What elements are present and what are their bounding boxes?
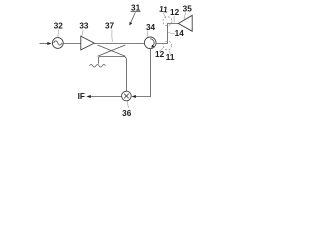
leader 37 (111, 30, 113, 42)
RX arrowhead into mixer (132, 95, 136, 98)
coupler 37 cross diag A (98, 45, 126, 56)
svg-text:12: 12 (155, 50, 165, 59)
svg-text:35: 35 (183, 4, 193, 13)
wire circulator to vertical waveguide 14 and top run to antenna (156, 24, 178, 44)
svg-text:34: 34 (146, 23, 156, 32)
svg-text:14: 14 (175, 29, 185, 38)
wire circulator down and left into mixer (RX) (136, 49, 151, 97)
wire amp to circulator (main line through coupler) (94, 43, 144, 45)
svg-text:12: 12 (170, 8, 180, 17)
leader 12 bottom (159, 48, 163, 51)
termination squiggle (90, 65, 106, 68)
leader 14 squiggle (168, 33, 175, 34)
svg-text:37: 37 (105, 22, 115, 31)
svg-text:32: 32 (54, 22, 64, 31)
connector dashed circle bottom (11/12) (163, 41, 172, 50)
leader 12 top (173, 16, 175, 23)
antenna 35 horn (178, 15, 192, 31)
leader 34 (146, 31, 149, 38)
circulator 34 (144, 37, 156, 49)
leader arrow 31 (131, 12, 135, 22)
IF output wire (90, 96, 121, 98)
connector dashed circle top (11/12) (163, 17, 172, 26)
wire input line (40, 43, 49, 45)
coupler 37 cross diag B (98, 45, 126, 56)
wire osc to amp (63, 43, 81, 45)
mixer 36 (122, 91, 132, 101)
coupler coupled line + LO branch wire down to mixer (98, 57, 126, 92)
svg-text:33: 33 (79, 22, 89, 31)
svg-text:IF: IF (78, 92, 85, 101)
leader 35 (184, 13, 186, 20)
leader 32 (57, 30, 60, 38)
input arrowhead (47, 42, 51, 45)
oscillator 32 (52, 38, 63, 49)
svg-text:36: 36 (122, 109, 132, 118)
IF arrowhead (86, 95, 91, 98)
leader 33 (82, 30, 83, 36)
leader 36 (127, 101, 128, 108)
leader 11 bottom (169, 50, 170, 54)
op-amp U33 amplifier triangle (81, 36, 94, 50)
leader 11 top (163, 13, 166, 18)
